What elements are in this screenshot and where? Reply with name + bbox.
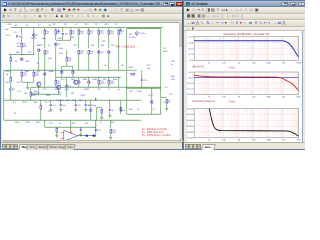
svg-text:51.00: 51.00 (188, 43, 194, 45)
svg-text:485V: 485V (163, 51, 169, 53)
wire (88, 54, 90, 70)
wire (9, 53, 34, 55)
resistor R21 (88, 30, 94, 35)
plot frame (194, 37, 298, 61)
wire (118, 48, 120, 70)
svg-text:+2.8: +2.8 (17, 91, 22, 93)
wire (55, 27, 57, 29)
svg-text:R23: R23 (60, 100, 65, 102)
resistor R22 (98, 30, 104, 35)
right scroll strip (302, 31, 306, 146)
svg-text:2SA: 2SA (113, 78, 118, 81)
grid (194, 72, 298, 94)
svg-text:C6: C6 (64, 24, 68, 26)
x axis labels (208, 140, 301, 142)
svg-text:VG: VG (13, 102, 16, 104)
wire rail4 (31, 86, 161, 88)
svg-text:31.00: 31.00 (188, 48, 194, 50)
current arrow marker 1 (58, 29, 60, 32)
svg-text:dB(v(OUT)): dB(v(OUT)) (192, 67, 204, 69)
svg-text:2.0E+003: 2.0E+003 (187, 132, 194, 134)
wire (31, 93, 61, 95)
grid (194, 37, 298, 61)
svg-text:10R: 10R (171, 79, 175, 81)
resistor R30 (78, 50, 84, 55)
resistor R41 (30, 92, 36, 97)
svg-text:N1: N1 (15, 61, 19, 63)
wire (80, 127, 82, 129)
wire (78, 34, 80, 48)
resistor L1 (120, 107, 122, 111)
wire (30, 96, 32, 100)
svg-text:Q1: Q1 (36, 35, 39, 37)
resistor R33 (98, 80, 105, 85)
resistor R16 (33, 72, 39, 77)
svg-text:1u: 1u (112, 109, 114, 111)
svg-text:Vanholland_2K23B+D2SL_Runnable: Vanholland_2K23B+D2SL_Runnable.CIR (223, 33, 269, 36)
svg-text:T1: T1 (153, 109, 156, 111)
pin dots (11, 29, 153, 129)
svg-text:750: 750 (111, 45, 115, 47)
wire mid rail2 (56, 76, 121, 78)
resistor R53 (110, 129, 116, 134)
svg-text:T2: T2 (100, 122, 103, 124)
wire (40, 100, 42, 105)
svg-text:11.00: 11.00 (189, 54, 195, 56)
wire (62, 27, 64, 31)
svg-text:Q3a: Q3a (48, 58, 53, 60)
capacitor C43 (85, 104, 91, 106)
wire (21, 27, 23, 35)
current arrow marker 2 (120, 27, 122, 30)
wire (101, 113, 103, 117)
capacitor C42 (75, 104, 81, 106)
wire left edge vertical (3, 70, 5, 120)
svg-text:10K: 10K (252, 63, 256, 65)
ground R45 (55, 135, 58, 137)
svg-text:6.0E+003: 6.0E+003 (187, 120, 194, 122)
capacitor C21 (80, 128, 82, 131)
svg-text:R51 = 21R5 (S2): R51 = 21R5 (S2) (116, 45, 135, 48)
svg-text:R12: R12 (74, 45, 79, 47)
capacitor D1 (solid) (85, 134, 88, 137)
curve K(Rout) black (209, 109, 298, 136)
svg-text:Q8: Q8 (101, 52, 104, 54)
resistor R7 (55, 30, 60, 35)
plot frame (194, 72, 298, 94)
resistor R23 (108, 30, 114, 35)
transistor Q7 (66, 84, 72, 87)
wire (75, 106, 77, 109)
svg-text:Q4b: Q4b (59, 48, 64, 50)
svg-text:C5: C5 (14, 32, 18, 34)
svg-text:C35: C35 (129, 91, 134, 93)
svg-text:2SJ: 2SJ (58, 92, 61, 94)
transistor QOUT3 (power) (74, 79, 78, 84)
wire rail5 (45, 126, 96, 128)
wire (66, 77, 68, 84)
svg-text:R12: R12 (80, 33, 83, 35)
wire (66, 62, 68, 66)
wire (55, 46, 57, 77)
svg-text:F (Hz): F (Hz) (229, 68, 236, 70)
svg-text:L1: L1 (108, 89, 111, 91)
wire (95, 120, 97, 137)
wire (58, 89, 60, 94)
transistor Q4 (55, 42, 61, 45)
source V1 (9, 87, 15, 90)
wire (118, 77, 120, 87)
wire (61, 66, 63, 70)
svg-text:301: 301 (71, 37, 75, 39)
svg-text:R38: R38 (129, 109, 134, 111)
svg-text:1u: 1u (59, 123, 62, 125)
svg-text:C17: C17 (45, 102, 50, 104)
svg-text:GND: GND (15, 122, 20, 124)
svg-text:8R: 8R (168, 102, 171, 104)
svg-text:100: 100 (222, 97, 226, 99)
wire (21, 48, 23, 55)
wire (97, 106, 102, 108)
svg-text:40.00: 40.00 (188, 72, 194, 74)
svg-text:330: 330 (43, 89, 47, 91)
wire (44, 27, 46, 29)
wire (55, 34, 57, 40)
svg-text:10u: 10u (63, 104, 66, 106)
svg-text:2SC: 2SC (103, 79, 108, 81)
transistor Q15 (90, 108, 93, 111)
wire (80, 131, 82, 134)
svg-text:R21: R21 (61, 79, 66, 81)
wire (56, 126, 58, 129)
wire (22, 81, 34, 83)
wire (62, 65, 73, 67)
svg-text:Q4: Q4 (58, 44, 61, 46)
svg-text:-9.00: -9.00 (189, 60, 195, 62)
wire (90, 112, 92, 120)
transistor Q14 (151, 100, 154, 103)
svg-text:KSC: KSC (59, 53, 64, 55)
svg-text:R50: R50 (26, 122, 31, 124)
resistor R34 (108, 80, 115, 85)
transistor QOUT1 (power) (37, 81, 41, 86)
ground RL (165, 108, 168, 110)
capacitor C41 (60, 104, 66, 106)
svg-text:0R33: 0R33 (84, 89, 90, 91)
svg-text:11.27mg: 11.27mg (88, 105, 97, 107)
wire (70, 34, 72, 40)
svg-text:R37: R37 (147, 65, 152, 67)
ground C42 (74, 109, 77, 111)
svg-text:25V: 25V (66, 100, 70, 102)
resistor R4 (44, 50, 49, 55)
svg-text:2.237m: 2.237m (139, 33, 146, 35)
svg-text:OUT: OUT (97, 89, 102, 91)
wire (44, 54, 46, 70)
wire (85, 106, 87, 109)
svg-text:0R22: 0R22 (81, 95, 86, 97)
svg-text:4R7: 4R7 (111, 122, 116, 124)
wire (151, 88, 153, 100)
svg-text:4k7: 4k7 (80, 53, 83, 55)
svg-text:1058: 1058 (46, 95, 50, 97)
svg-text:0.0E+000: 0.0E+000 (187, 138, 194, 140)
svg-text:MJE: MJE (93, 79, 98, 81)
wire (38, 86, 40, 94)
resistor R31 (88, 50, 94, 55)
capacitor C7 (62, 33, 68, 35)
wire (44, 70, 46, 72)
wire (38, 52, 40, 70)
svg-text:R60: R60 (171, 76, 176, 78)
svg-text:R39: R39 (6, 71, 11, 73)
wire (33, 37, 35, 55)
source I18 (135, 31, 145, 34)
transistor Q11 (78, 80, 81, 83)
svg-text:R4: R4 (46, 53, 48, 55)
svg-text:10R: 10R (72, 100, 76, 102)
wire (98, 77, 100, 80)
wire +rail top (11, 26, 163, 28)
wire (88, 27, 90, 29)
wire (56, 39, 71, 41)
wire (66, 50, 68, 57)
resistor R40 (10, 77, 12, 81)
wire (127, 87, 161, 89)
grid (194, 109, 298, 138)
wire bottom rail (4, 119, 141, 121)
svg-text:4.0E+003: 4.0E+003 (187, 126, 194, 128)
svg-text:C2: C2 (38, 25, 42, 27)
wire (110, 133, 112, 137)
wire op-amp output (78, 134, 96, 136)
transistor Q10 (44, 72, 47, 75)
svg-text:R15: R15 (23, 75, 26, 77)
svg-text:R11: R11 (68, 60, 71, 62)
wire (50, 106, 52, 109)
svg-text:680: 680 (16, 52, 20, 54)
wire mid rail (4, 69, 126, 71)
plot frame (194, 109, 298, 138)
wire (96, 107, 98, 120)
svg-text:100K: 100K (266, 97, 271, 99)
wire (10, 67, 12, 77)
wire (44, 34, 46, 48)
horizontal scrollbar (2, 140, 183, 143)
wire (95, 120, 97, 127)
wire lower rail (4, 99, 141, 101)
transistor Q8 (98, 50, 104, 53)
capacitor C5 (16, 35, 19, 37)
wire (70, 27, 72, 29)
resistor R1 (10, 57, 12, 61)
svg-text:10M: 10M (297, 97, 301, 99)
svg-text:1uF: 1uF (5, 29, 9, 31)
wire (98, 84, 100, 87)
capacitor D2 (solid) (92, 134, 95, 137)
wire (72, 74, 74, 77)
svg-text:1n: 1n (171, 64, 174, 66)
svg-text:3R9: 3R9 (36, 122, 41, 124)
wire (33, 70, 35, 72)
wire (141, 81, 143, 88)
wire (108, 84, 110, 87)
capacitor C20 (109, 109, 114, 111)
y axis labels (188, 37, 194, 63)
svg-text:47u: 47u (78, 104, 81, 106)
x axis labels (208, 63, 301, 65)
resistor R2 (21, 43, 27, 48)
svg-text:V1: V1 (13, 89, 15, 91)
svg-text:L4B: L4B (6, 35, 10, 37)
ground R44 (100, 117, 103, 119)
svg-text:F (Hz): F (Hz) (229, 102, 236, 104)
wire (78, 77, 80, 80)
svg-text:2k2: 2k2 (28, 52, 32, 54)
resistor R9 (70, 30, 75, 35)
svg-text:47u: 47u (53, 104, 56, 106)
ground mid (26, 87, 29, 89)
svg-text:R5: R5 (26, 25, 30, 27)
svg-text:R13: R13 (100, 33, 103, 35)
svg-text:10k: 10k (147, 68, 151, 70)
svg-text:60.4k: 60.4k (31, 38, 37, 40)
svg-text:22k: 22k (85, 123, 89, 125)
svg-text:1N: 1N (37, 71, 40, 73)
svg-text:ph(v(OUT)) (Degrees): ph(v(OUT)) (Degrees) (192, 100, 215, 103)
svg-text:0R1: 0R1 (6, 82, 11, 84)
wire (109, 111, 111, 115)
svg-text:1M: 1M (282, 97, 285, 99)
resistor R24 (118, 30, 124, 35)
svg-text:1M: 1M (282, 63, 285, 65)
svg-text:-240.00: -240.00 (187, 94, 194, 96)
wire (21, 76, 23, 82)
svg-text:1K: 1K (238, 97, 241, 99)
svg-text:C9: C9 (115, 24, 119, 26)
wire (10, 54, 12, 57)
resistor R36 (131, 73, 135, 75)
wire (55, 77, 57, 80)
ground R53 (109, 137, 112, 139)
wire (33, 76, 35, 82)
svg-text:56R: 56R (71, 79, 75, 81)
svg-text:R12: R12 (85, 24, 90, 26)
wire (44, 120, 46, 127)
wire (56, 132, 58, 135)
svg-text:68p: 68p (101, 45, 105, 47)
svg-text:C11: C11 (121, 65, 126, 67)
wire (78, 27, 80, 29)
wire (108, 54, 110, 70)
wire (151, 104, 153, 114)
ground C43 (84, 109, 87, 111)
wire (120, 100, 122, 114)
svg-text:WBT: WBT (25, 71, 30, 73)
op-amp X1 T-point (60, 128, 78, 141)
svg-text:10K: 10K (252, 97, 256, 99)
svg-text:-30.00: -30.00 (188, 78, 195, 80)
svg-text:KSA: KSA (49, 70, 54, 73)
transistor Q2 (38, 48, 41, 51)
svg-text:BAV21: BAV21 (37, 44, 44, 47)
svg-text:1k21: 1k21 (42, 38, 47, 40)
svg-text:100K: 100K (266, 63, 271, 65)
wire (60, 106, 62, 109)
capacitor C40 (50, 104, 56, 106)
svg-text:R52: R52 (72, 123, 77, 125)
wire (21, 70, 23, 72)
svg-text:0R22: 0R22 (100, 83, 105, 85)
resistor RL (166, 99, 171, 104)
svg-text:1k: 1k (137, 109, 140, 111)
svg-text:6R8: 6R8 (65, 89, 70, 91)
svg-text:100: 100 (222, 63, 226, 65)
wire (66, 88, 68, 97)
wire (72, 66, 74, 70)
svg-text:100: 100 (24, 93, 28, 95)
svg-text:10: 10 (208, 97, 211, 99)
svg-text:MJE: MJE (83, 79, 88, 81)
ground C20 (108, 115, 111, 117)
capacitor C23 (95, 129, 101, 131)
svg-text:+56V: +56V (7, 24, 13, 26)
ground C21 (79, 134, 82, 136)
svg-text:C9: C9 (120, 33, 122, 35)
svg-text:220: 220 (102, 41, 106, 43)
wire (19, 35, 22, 37)
y axis labels (187, 72, 195, 96)
wire (40, 109, 42, 120)
svg-text:X1 - 100Hz Rout = 0.4 ohm: X1 - 100Hz Rout = 0.4 ohm (142, 134, 171, 137)
wire (88, 77, 90, 80)
current arrow marker 3 (95, 97, 97, 100)
svg-text:R47: R47 (23, 102, 28, 104)
transistor QOUT2 (power) (57, 84, 61, 89)
svg-text:R7: R7 (57, 33, 59, 35)
ground C40 (49, 109, 52, 111)
wire (88, 84, 90, 87)
wire (21, 36, 23, 42)
svg-text:R9: R9 (72, 33, 74, 35)
wire (78, 54, 80, 70)
resistor R20 (78, 30, 84, 35)
svg-text:1k2: 1k2 (91, 45, 95, 47)
svg-text:R16: R16 (35, 75, 38, 77)
svg-text:OUT: OUT (121, 110, 126, 112)
capacitor C34 (141, 79, 148, 81)
wire (161, 96, 167, 98)
wire (61, 74, 63, 77)
ground C41 (59, 109, 62, 111)
wire (44, 76, 46, 87)
wire (55, 84, 57, 87)
svg-text:T47: T47 (163, 48, 168, 50)
curve dB(v(OUT)) blue (194, 41, 298, 57)
transistor Q1 (33, 33, 39, 36)
svg-text:8.0E+003: 8.0E+003 (187, 114, 194, 116)
svg-text:R41: R41 (32, 95, 35, 97)
svg-text:x2: x2 (75, 24, 78, 26)
resistor R3 (44, 30, 49, 35)
svg-text:2N5: 2N5 (58, 38, 63, 40)
svg-text:1.0E+004: 1.0E+004 (187, 109, 194, 111)
svg-text:C22: C22 (49, 123, 54, 125)
svg-text:C8: C8 (90, 33, 92, 35)
wire (110, 120, 112, 128)
svg-text:R13: R13 (105, 24, 110, 26)
svg-text:C8: C8 (95, 24, 99, 26)
